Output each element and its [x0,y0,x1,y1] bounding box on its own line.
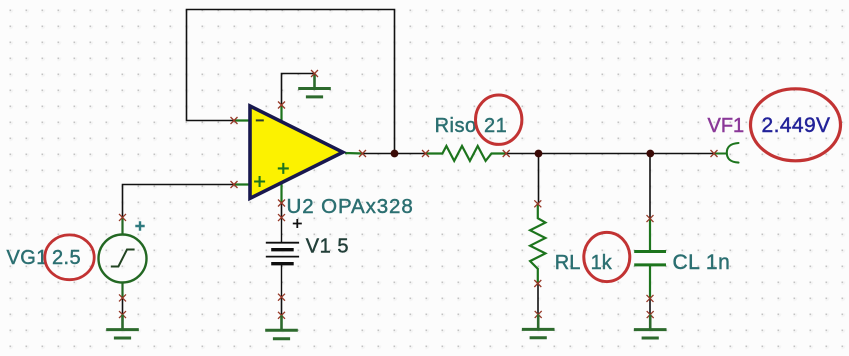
pin marker V1 top [278,214,285,221]
wire op-amp V+ pin to top ground [282,74,315,106]
svg-text:RL: RL [555,252,581,274]
pin marker op-amp V- [278,200,285,207]
red ellipse around 2.449V [751,89,841,161]
ground under RL [522,314,555,337]
svg-text:2.5: 2.5 [52,247,81,269]
svg-text:21: 21 [484,115,507,137]
ground under battery V1 [265,315,298,338]
ground under CL [634,315,667,338]
op-amp U1 pin stubs [234,105,363,203]
value label 1k [591,252,613,274]
svg-text:Riso: Riso [435,115,477,137]
pin marker V1 bottom [278,294,285,301]
svg-text:CL 1n: CL 1n [673,251,731,274]
pin marker op-amp non-inverting input [231,181,238,188]
svg-text:1k: 1k [591,252,613,274]
capacitor CL [634,219,666,299]
wire op-amp V- pin to battery V1 [281,203,283,218]
pin marker VG1 bottom [119,294,126,301]
op-amp inverting input minus sign [256,119,264,121]
battery V1 plus polarity mark [293,219,302,228]
ground under VG1 [106,315,139,338]
label V1 5 [306,236,349,258]
wire VG1 bottom to ground [122,298,124,315]
node junction at RL branch [535,150,543,158]
top ground symbol [298,74,331,97]
op-amp non-inverting input plus sign [254,176,265,187]
red ellipse around 2.5 [45,235,94,280]
op-amp plus sign near V+ [278,163,289,174]
label VG1 [7,247,48,269]
pin marker CL ground [647,311,654,318]
label Riso [435,115,477,137]
pin marker CL bottom [647,295,654,302]
wire battery V1 bottom to ground [281,297,283,315]
red ellipse around 21 [476,95,522,144]
pin marker RL ground [535,311,542,318]
voltage probe VF1 symbol [714,143,739,163]
voltage generator VG1 [99,217,147,298]
label U2 OPAx328 [287,195,414,218]
resistor Riso [426,146,507,161]
pin marker op-amp inverting input [231,117,238,124]
pin marker Riso right [503,150,510,157]
resistor RL [530,204,545,284]
battery V1 [266,218,299,298]
wire node to RL top [538,154,540,204]
svg-text:2.449V: 2.449V [762,114,831,137]
label RL [555,252,581,274]
wire RL bottom to ground [537,284,539,315]
svg-text:VF1: VF1 [708,115,745,137]
pin marker top ground [311,70,318,77]
wire Riso to output node and VF1 probe [506,153,714,155]
pin marker VG1 ground [119,311,126,318]
node junction at op-amp output / feedback [391,150,399,158]
wire CL bottom to ground [649,298,651,314]
pin marker VF1 probe [711,150,718,157]
pin marker RL bottom [534,280,541,287]
svg-text:U2 OPAx328: U2 OPAx328 [287,195,414,218]
svg-text:VG1: VG1 [7,247,48,269]
VG1 step waveform symbol [111,250,135,267]
label CL 1n [673,251,731,274]
svg-text:V1 5: V1 5 [306,236,349,258]
wire op-amp output to Riso [363,153,426,155]
wire feedback loop from output to inverting input [187,10,395,154]
value label 21 [484,115,507,137]
pin marker V1 ground [278,312,285,319]
wire node to CL top [649,154,651,219]
pin marker op-amp output [359,150,366,157]
value label 2.449V [762,114,831,137]
pin marker op-amp V+ [278,102,285,109]
wire VG1 to non-inverting input [123,185,235,218]
op-amp U2 triangle body [250,106,343,198]
label VF1 [708,115,745,137]
pin marker VG1 top [119,214,126,221]
red ellipse around 1k [584,232,630,281]
pin marker CL top [647,215,654,222]
pin marker RL top [534,200,541,207]
pin marker Riso left [422,150,429,157]
node junction at CL branch [646,150,654,158]
VG1 plus polarity mark [135,221,144,230]
value label 2.5 [52,247,81,269]
